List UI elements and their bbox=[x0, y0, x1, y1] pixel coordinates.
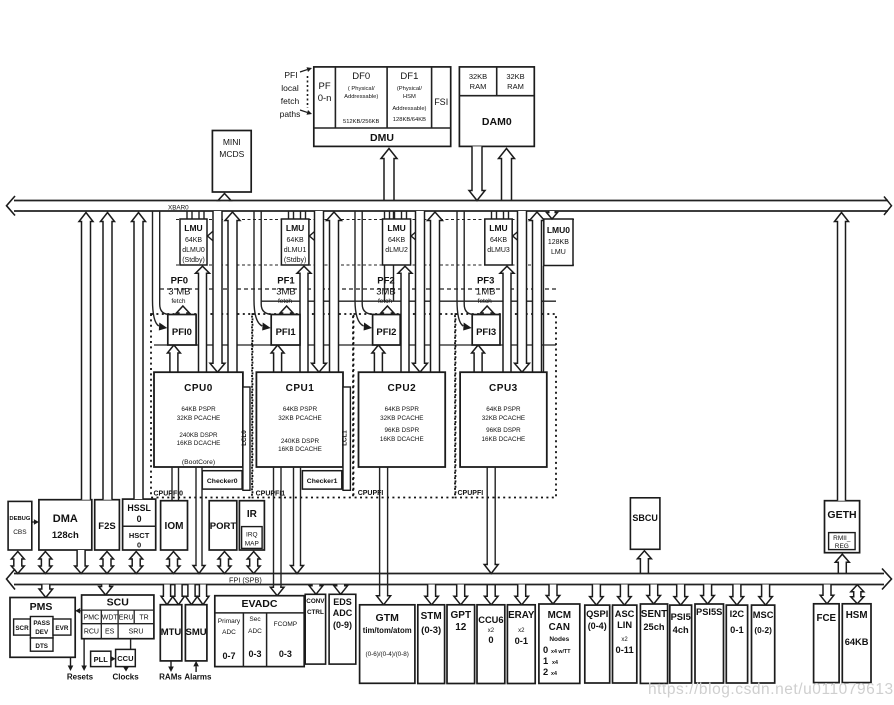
arrow FPI to PSI5S bbox=[701, 585, 715, 605]
wire pair up-arrow into LMU0 bottom bbox=[196, 266, 210, 372]
svg-text:QSPI: QSPI bbox=[586, 609, 608, 619]
svg-text:Resets: Resets bbox=[67, 673, 94, 682]
svg-text:32KB PCACHE: 32KB PCACHE bbox=[380, 415, 423, 422]
arrow FPI to SMU right bbox=[197, 585, 209, 605]
DMU label row divider bbox=[314, 127, 451, 129]
svg-text:dLMU2: dLMU2 bbox=[385, 247, 408, 254]
wire DAM0 down to XBAR0 bbox=[469, 146, 485, 200]
block DEBUG CBS bbox=[8, 501, 32, 550]
arrow bus down into CPU2 top bbox=[413, 211, 428, 372]
svg-text:SRU: SRU bbox=[129, 629, 144, 636]
svg-text:PFI: PFI bbox=[284, 70, 297, 80]
svg-text:16KB DCACHE: 16KB DCACHE bbox=[177, 440, 221, 447]
svg-text:CAN: CAN bbox=[549, 622, 570, 633]
flash module PF/DF0/DF1/FSI outer box bbox=[314, 67, 451, 146]
LMU band top line bbox=[176, 219, 574, 221]
arrow FPI to SMU left bbox=[186, 585, 198, 605]
arrow FPI to ERAY bbox=[515, 585, 529, 605]
svg-text:0-1: 0-1 bbox=[515, 636, 528, 646]
svg-text:12: 12 bbox=[455, 622, 467, 633]
svg-text:(0-9): (0-9) bbox=[333, 620, 352, 630]
PFI bottom line bbox=[154, 344, 556, 346]
svg-text:STM: STM bbox=[421, 611, 442, 622]
arrow FPI to SCU bbox=[99, 585, 113, 596]
svg-text:0: 0 bbox=[488, 635, 493, 645]
svg-text:Checker1: Checker1 bbox=[307, 478, 338, 485]
block SCR bbox=[14, 619, 31, 635]
svg-text:RAMs: RAMs bbox=[159, 673, 182, 682]
svg-text:HSM: HSM bbox=[403, 94, 416, 100]
svg-text:HSM: HSM bbox=[846, 610, 868, 621]
arrow DMA to FPI bbox=[39, 552, 52, 574]
svg-text:EDS: EDS bbox=[333, 597, 352, 607]
dotted cluster CPU0 bbox=[151, 314, 252, 498]
svg-text:DEBUG: DEBUG bbox=[9, 516, 30, 522]
svg-text:WDT: WDT bbox=[102, 615, 119, 622]
svg-text:0: 0 bbox=[137, 514, 142, 524]
svg-text:512KB/256KB: 512KB/256KB bbox=[343, 119, 380, 125]
arrow FPI to SENT bbox=[647, 585, 661, 605]
arrow PORT to FPI bbox=[218, 552, 231, 574]
svg-text:32KB PCACHE: 32KB PCACHE bbox=[278, 415, 321, 422]
svg-text:DMU: DMU bbox=[370, 132, 394, 144]
svg-text:CTRL: CTRL bbox=[307, 609, 324, 616]
svg-text:LMU0: LMU0 bbox=[547, 225, 570, 235]
svg-text:ERU: ERU bbox=[119, 615, 134, 622]
svg-text:tim/tom/atom: tim/tom/atom bbox=[363, 626, 412, 635]
svg-text:PF3: PF3 bbox=[477, 276, 494, 287]
svg-text:LMU: LMU bbox=[489, 223, 507, 233]
svg-text:SBCU: SBCU bbox=[632, 513, 658, 523]
svg-text:PLL: PLL bbox=[94, 655, 109, 664]
svg-text:4ch: 4ch bbox=[673, 625, 689, 635]
arrow up above PFI3 bbox=[481, 306, 494, 315]
wire GETH up to XBAR0 bbox=[835, 213, 849, 501]
block RMII REG bbox=[829, 533, 856, 550]
svg-text:CCU6: CCU6 bbox=[478, 615, 503, 625]
svg-text:3 MB: 3 MB bbox=[168, 287, 190, 298]
svg-text:32KB PCACHE: 32KB PCACHE bbox=[177, 415, 220, 422]
block LMU2 bbox=[383, 219, 411, 265]
svg-text:SENT: SENT bbox=[641, 609, 667, 620]
block LMU1 bbox=[281, 219, 309, 265]
svg-text:0-3: 0-3 bbox=[279, 649, 292, 659]
wire pair CPU1 down to FPI bus arrow bbox=[293, 467, 295, 565]
block MCM CAN bbox=[539, 604, 580, 683]
dotted cluster CPU1 bbox=[253, 314, 354, 498]
svg-text:0-7: 0-7 bbox=[222, 651, 235, 661]
wire pair CPU0 down to FPI bus bbox=[195, 467, 197, 565]
block PFI2 bbox=[373, 315, 401, 346]
svg-text:(BootCore): (BootCore) bbox=[182, 459, 215, 466]
wire bus curve into PFI1 left (inner) bbox=[261, 211, 273, 315]
svg-text:ADC: ADC bbox=[333, 608, 353, 618]
svg-text:16KB DCACHE: 16KB DCACHE bbox=[482, 436, 526, 443]
svg-text:ADC: ADC bbox=[248, 628, 262, 635]
svg-text:128KB/64KB: 128KB/64KB bbox=[393, 117, 426, 123]
wire pair up-arrow into LMU2 bottom bbox=[398, 266, 412, 372]
block F2S bbox=[95, 500, 120, 550]
svg-text:96KB DSPR: 96KB DSPR bbox=[486, 427, 521, 434]
dotted cluster CPU2 bbox=[354, 314, 456, 498]
arrow bus down into CPU3 top bbox=[515, 211, 530, 372]
svg-text:RAM: RAM bbox=[507, 82, 524, 91]
block PMS bbox=[10, 598, 75, 658]
svg-text:96KB DSPR: 96KB DSPR bbox=[384, 427, 419, 434]
block DTS bbox=[30, 638, 53, 651]
block LCL0 bbox=[243, 387, 250, 490]
wire bus curve into PFI2 left (outer) bbox=[355, 211, 364, 326]
arrow DEBUG to DMA bbox=[32, 521, 34, 523]
arrow MTU RAMs down bbox=[170, 661, 172, 667]
svg-text:HSCT: HSCT bbox=[129, 531, 150, 540]
svg-text:CPUPFI: CPUPFI bbox=[458, 490, 484, 497]
dotted cluster CPU3 bbox=[456, 314, 557, 498]
block GTM bbox=[360, 605, 415, 684]
block DMA bbox=[39, 500, 92, 550]
block ASCLIN bbox=[613, 605, 637, 683]
block PSI5S bbox=[695, 604, 724, 683]
block IR bbox=[239, 501, 264, 550]
pfi path arrow bottom bbox=[300, 110, 307, 112]
svg-text:REG: REG bbox=[835, 543, 849, 550]
svg-text:MCM: MCM bbox=[548, 610, 571, 621]
wire pair bus into LMU0 top stub bbox=[186, 211, 188, 219]
arrow up above PFI1 bbox=[280, 306, 293, 315]
wire pair DMU fetch path down to PF line bbox=[384, 211, 386, 301]
svg-text:Addressable): Addressable) bbox=[344, 94, 378, 100]
arrow FPI to I2C bbox=[730, 585, 744, 606]
svg-text:CPU3: CPU3 bbox=[489, 383, 518, 394]
wire bus curve into PFI3 left (outer) bbox=[457, 211, 463, 326]
block EVADC bbox=[215, 596, 304, 667]
svg-text:(0-3): (0-3) bbox=[421, 625, 441, 636]
svg-text:dLMU1: dLMU1 bbox=[284, 247, 307, 254]
wire bus curve into PFI1 left (outer) bbox=[254, 211, 262, 326]
svg-text:PFI2: PFI2 bbox=[376, 327, 396, 338]
svg-text:0-3: 0-3 bbox=[248, 649, 261, 659]
svg-text:64KB: 64KB bbox=[388, 237, 405, 244]
svg-text:PORT: PORT bbox=[210, 521, 237, 532]
wire pair up-arrow into LMU3 bottom bbox=[500, 266, 514, 372]
svg-text:MSC: MSC bbox=[753, 610, 774, 620]
arrow up above PFI0 bbox=[176, 306, 189, 315]
svg-text:local: local bbox=[281, 83, 299, 93]
svg-text:PSI5S: PSI5S bbox=[696, 607, 722, 617]
svg-text:SCR: SCR bbox=[15, 625, 29, 632]
svg-text:PF0: PF0 bbox=[171, 276, 188, 287]
block PLL bbox=[91, 651, 111, 666]
arrow IR to FPI bbox=[247, 552, 260, 574]
svg-text:DMA: DMA bbox=[53, 513, 78, 525]
wire bus curve into PFI3 left (inner) bbox=[464, 211, 474, 315]
arrow FPI to CCU6 bbox=[484, 585, 498, 605]
block PFI3 bbox=[472, 315, 500, 346]
svg-text:x2: x2 bbox=[621, 637, 628, 643]
svg-text:RMII_: RMII_ bbox=[833, 535, 851, 542]
svg-text:64KB: 64KB bbox=[490, 237, 507, 244]
svg-text:PF: PF bbox=[319, 81, 331, 92]
arrow PMS resets down bbox=[70, 657, 72, 665]
block ERAY bbox=[507, 605, 535, 684]
arrow FPI to PMS bbox=[39, 585, 53, 598]
svg-text:LMU: LMU bbox=[286, 223, 304, 233]
svg-text:x2: x2 bbox=[488, 628, 495, 634]
arrow up above PFI2 bbox=[381, 306, 394, 315]
svg-text:EVR: EVR bbox=[55, 625, 68, 632]
svg-text:Sec: Sec bbox=[249, 616, 261, 623]
svg-text:(0-2): (0-2) bbox=[754, 625, 772, 635]
svg-text:DAM0: DAM0 bbox=[482, 116, 512, 128]
svg-text:25ch: 25ch bbox=[643, 622, 665, 632]
svg-text:ASC: ASC bbox=[615, 609, 635, 619]
svg-text:ADC: ADC bbox=[222, 629, 236, 636]
block I2C bbox=[726, 605, 747, 683]
svg-text:EVADC: EVADC bbox=[242, 598, 278, 610]
svg-text:(0-4): (0-4) bbox=[588, 621, 607, 631]
block MSC bbox=[752, 605, 775, 683]
svg-text:IOM: IOM bbox=[165, 521, 184, 532]
svg-text:64KB PSPR: 64KB PSPR bbox=[385, 406, 420, 413]
arrow bus down into LMU0 top bbox=[547, 211, 558, 219]
arrow into LMU1 right edge bbox=[309, 229, 317, 243]
svg-text:Alarms: Alarms bbox=[184, 673, 212, 682]
svg-text:LMU: LMU bbox=[184, 223, 202, 233]
wire pair CPU3 down to FPI bus bbox=[486, 467, 488, 563]
svg-text:fetch: fetch bbox=[171, 298, 185, 305]
svg-text:F2S: F2S bbox=[98, 521, 115, 532]
block HSSL bbox=[123, 499, 156, 550]
svg-text:240KB DSPR: 240KB DSPR bbox=[281, 438, 320, 445]
wire pair CPU0 up-arrow into bus bbox=[225, 212, 240, 372]
DAM0 RAM column divider bbox=[496, 67, 498, 96]
svg-text:MINI: MINI bbox=[223, 137, 241, 147]
svg-text:fetch: fetch bbox=[378, 298, 392, 305]
wire bus curve into PFI0 left (outer) bbox=[153, 211, 159, 326]
block LMU0 bbox=[180, 219, 207, 265]
block EDS ADC bbox=[329, 594, 356, 664]
block HSM bbox=[842, 604, 871, 683]
svg-text:PMS: PMS bbox=[30, 601, 53, 613]
svg-text:(Stdby): (Stdby) bbox=[182, 257, 205, 264]
block MTU bbox=[160, 605, 182, 661]
svg-text:PSI5: PSI5 bbox=[671, 612, 691, 622]
svg-text:64KB PSPR: 64KB PSPR bbox=[486, 406, 521, 413]
PF column divider bbox=[334, 67, 336, 128]
LMU band bottom line bbox=[176, 264, 574, 266]
svg-text:https://blog.csdn.net/u0110796: https://blog.csdn.net/u011079613 bbox=[648, 681, 894, 698]
svg-text:MCDS: MCDS bbox=[219, 149, 244, 159]
block SBCU bbox=[630, 498, 660, 550]
svg-text:GTM: GTM bbox=[376, 612, 400, 624]
svg-text:32KB: 32KB bbox=[469, 72, 487, 81]
wire SCU to CCU bbox=[130, 639, 132, 650]
arrow into LMU3 right edge bbox=[513, 229, 521, 243]
arrow up into PFI1 bottom bbox=[271, 345, 284, 372]
wire XBAR0 up to DAM0 bbox=[499, 149, 515, 201]
block GPT12 bbox=[447, 605, 475, 684]
svg-text:dLMU0: dLMU0 bbox=[182, 247, 205, 254]
svg-text:IRQ: IRQ bbox=[246, 532, 258, 539]
svg-text:ERAY: ERAY bbox=[508, 610, 535, 621]
svg-text:128KB: 128KB bbox=[548, 239, 569, 246]
svg-text:PFI1: PFI1 bbox=[276, 327, 297, 338]
svg-text:LMU: LMU bbox=[551, 249, 566, 256]
svg-text:240KB DSPR: 240KB DSPR bbox=[179, 432, 218, 439]
svg-text:I2C: I2C bbox=[730, 609, 745, 619]
block CPU3 bbox=[460, 372, 547, 467]
arrow into LMU2 right edge bbox=[411, 229, 419, 243]
pfi path arrow top bbox=[300, 70, 307, 72]
svg-text:0: 0 bbox=[543, 645, 548, 655]
svg-text:CONV: CONV bbox=[306, 598, 325, 605]
fetch line bbox=[261, 300, 556, 302]
arrow DEBUG to FPI bbox=[11, 552, 24, 574]
SCU grid bbox=[82, 609, 154, 611]
svg-text:SMU: SMU bbox=[186, 627, 207, 638]
arrow FPI up to SBCU bbox=[637, 551, 651, 574]
arrow IOM to FPI bbox=[167, 552, 180, 574]
bus XBAR0 bbox=[14, 200, 888, 202]
svg-text:SCU: SCU bbox=[107, 597, 129, 609]
svg-text:Clocks: Clocks bbox=[112, 673, 139, 682]
block Checker0 bbox=[202, 471, 242, 489]
arrow FPI to STM bbox=[425, 585, 439, 605]
block PFI0 bbox=[168, 315, 196, 346]
svg-text:Checker0: Checker0 bbox=[207, 478, 238, 485]
arrow up into PFI0 bottom bbox=[167, 345, 180, 372]
block LCL1 bbox=[343, 387, 350, 490]
arrow SCU to PMS bbox=[80, 610, 81, 612]
wire LMU0 left edge down to CPU3 bbox=[543, 266, 545, 372]
block IOM bbox=[161, 501, 188, 550]
wire pair bus into LMU3 top stub bbox=[491, 211, 493, 219]
svg-text:Nodes: Nodes bbox=[549, 636, 569, 643]
svg-text:3MB: 3MB bbox=[276, 287, 296, 298]
svg-text:1MB: 1MB bbox=[476, 287, 496, 298]
block CCU bbox=[116, 649, 136, 666]
svg-text:DF1: DF1 bbox=[400, 71, 418, 82]
svg-text:TR: TR bbox=[139, 615, 148, 622]
wire DMA up to XBAR0 bbox=[79, 213, 93, 500]
svg-text:( Physical/: ( Physical/ bbox=[348, 86, 375, 92]
svg-text:LMU: LMU bbox=[387, 223, 405, 233]
svg-text:(Physical/: (Physical/ bbox=[397, 86, 423, 92]
block Checker1 bbox=[302, 471, 341, 489]
block EVR bbox=[53, 619, 71, 635]
arrow FPI to MTU right bbox=[173, 585, 185, 605]
arrow FPI to MTU left bbox=[161, 585, 173, 605]
wire pair CPU2 down to GTM bbox=[379, 467, 381, 595]
svg-text:DF0: DF0 bbox=[352, 71, 370, 82]
arrow FPI to FCE bbox=[820, 585, 834, 604]
arrow FPI to PSI5 bbox=[674, 585, 688, 606]
wire pair bus into LMU1 top stub bbox=[288, 211, 290, 219]
arrow FPI to MSC bbox=[759, 585, 773, 606]
pfi path dotted line bbox=[307, 76, 309, 108]
svg-text:0-1: 0-1 bbox=[730, 625, 743, 635]
svg-text:FCOMP: FCOMP bbox=[274, 621, 297, 628]
arrow CCU clocks down bbox=[125, 666, 127, 668]
arrow FPI to GPT12 bbox=[454, 585, 468, 605]
svg-text:(0-6)/(0-4)/(0-8): (0-6)/(0-4)/(0-8) bbox=[366, 651, 409, 658]
wire pair through LMU0 down to CPU0 (upper stub) bbox=[198, 211, 200, 219]
svg-text:CCU: CCU bbox=[117, 654, 133, 663]
block PORT bbox=[209, 501, 237, 550]
block QSPI bbox=[585, 605, 610, 683]
wire pair bus into LMU2 top stub bbox=[389, 211, 391, 219]
svg-text:PASS: PASS bbox=[33, 620, 50, 627]
svg-text:LCL0: LCL0 bbox=[241, 430, 248, 446]
svg-text:x4 w/TT: x4 w/TT bbox=[551, 649, 571, 655]
block CCU6 bbox=[477, 605, 505, 684]
svg-text:3MB: 3MB bbox=[376, 287, 396, 298]
svg-text:PMC: PMC bbox=[84, 615, 100, 622]
svg-text:PFI0: PFI0 bbox=[172, 327, 192, 338]
svg-text:PF2: PF2 bbox=[377, 276, 394, 287]
svg-text:64KB PSPR: 64KB PSPR bbox=[181, 406, 216, 413]
svg-text:(Stdby): (Stdby) bbox=[284, 257, 307, 264]
svg-text:fetch: fetch bbox=[478, 298, 492, 305]
svg-text:2: 2 bbox=[543, 667, 548, 677]
arrow Alarms up into SMU bbox=[195, 666, 197, 672]
block FCE bbox=[814, 604, 840, 683]
wire pair through LMU1 down to CPU1 (upper stub) bbox=[300, 211, 302, 219]
svg-text:LCL1: LCL1 bbox=[341, 430, 348, 446]
arrow FPI to QSPI bbox=[590, 585, 604, 606]
DF1/FSI divider bbox=[431, 67, 433, 128]
svg-text:32KB PCACHE: 32KB PCACHE bbox=[482, 415, 525, 422]
arrow FPI to EDS ADC bbox=[334, 585, 348, 595]
svg-text:64KB: 64KB bbox=[185, 237, 202, 244]
svg-text:CPU0: CPU0 bbox=[184, 383, 213, 394]
svg-text:FPI (SPB): FPI (SPB) bbox=[229, 576, 262, 585]
svg-text:DEV: DEV bbox=[35, 629, 49, 636]
svg-text:32KB: 32KB bbox=[506, 72, 524, 81]
block LMU3 bbox=[485, 219, 512, 265]
block SMU bbox=[185, 605, 207, 661]
svg-text:MAP: MAP bbox=[245, 541, 259, 548]
svg-text:Primary: Primary bbox=[218, 618, 241, 625]
arrow FPI up to GETH bbox=[835, 554, 849, 573]
wire pair through LMU2 down to CPU2 (upper stub) bbox=[401, 211, 403, 219]
wire pair CPU0 to IOM bbox=[171, 467, 173, 501]
arrow into LMU0 right edge bbox=[208, 229, 216, 243]
svg-text:x4: x4 bbox=[552, 660, 558, 666]
arrow bus down into CPU1 top bbox=[312, 211, 327, 372]
DF0/DF1 divider bbox=[386, 67, 388, 128]
block PFI1 bbox=[271, 315, 300, 346]
wire F2S up to XBAR0 bbox=[101, 213, 115, 500]
svg-text:XBAR0: XBAR0 bbox=[168, 205, 189, 212]
svg-text:PFI3: PFI3 bbox=[476, 327, 496, 338]
svg-text:0: 0 bbox=[137, 541, 141, 550]
DAM0 outer box bbox=[459, 67, 534, 146]
svg-text:DTS: DTS bbox=[35, 643, 48, 650]
svg-text:GPT: GPT bbox=[451, 610, 472, 621]
svg-text:FSI: FSI bbox=[434, 97, 448, 107]
wire SCU resets down bbox=[83, 611, 85, 666]
wire pair CPU3 up-arrow into bus bbox=[530, 212, 545, 372]
svg-text:CBS: CBS bbox=[13, 529, 27, 536]
block PASS DEV bbox=[30, 617, 53, 639]
svg-text:CPU1: CPU1 bbox=[286, 383, 315, 394]
arrow FPI to ASCLIN bbox=[618, 585, 632, 606]
block IRQ MAP bbox=[242, 527, 263, 549]
svg-text:16KB DCACHE: 16KB DCACHE bbox=[278, 446, 322, 453]
svg-text:PF1: PF1 bbox=[277, 276, 295, 287]
svg-text:0-11: 0-11 bbox=[616, 645, 634, 655]
